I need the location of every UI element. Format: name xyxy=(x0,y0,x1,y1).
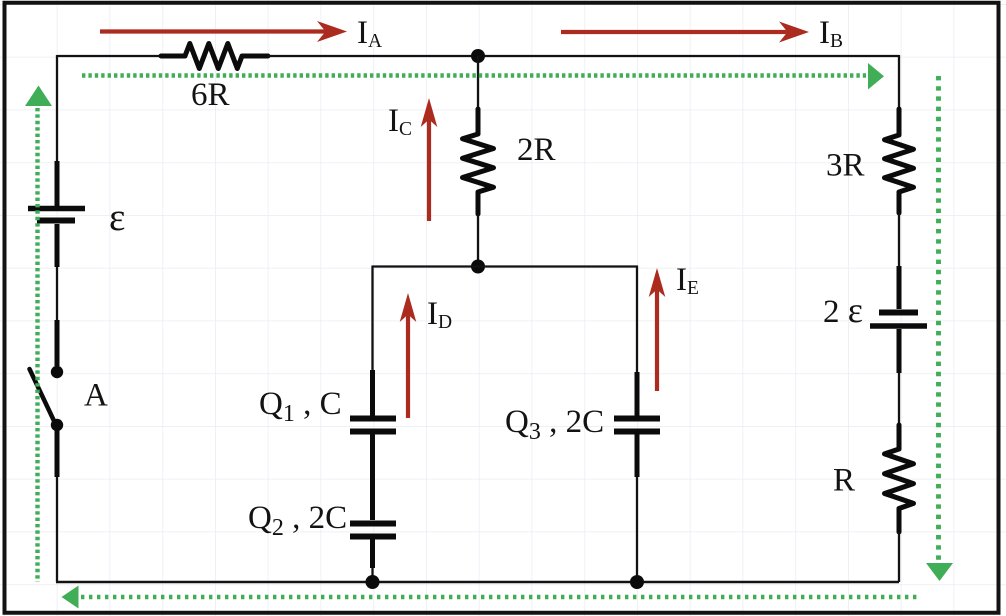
wire right capacitor branch lower xyxy=(636,477,638,582)
wire 2R stub bottom xyxy=(477,214,479,267)
wire left rail lower xyxy=(56,477,58,582)
capacitor Q2 2C xyxy=(350,524,396,569)
battery EMF (cell) xyxy=(28,161,85,267)
label 2R xyxy=(517,132,556,168)
wire right rail (2e to R) xyxy=(898,373,900,426)
label A xyxy=(84,378,108,414)
label IA xyxy=(357,15,382,52)
wire right rail top xyxy=(898,55,900,110)
label epsilon xyxy=(109,196,125,239)
label 2 epsilon xyxy=(823,290,863,330)
current arrow IA xyxy=(100,21,347,42)
node bottom-left junction xyxy=(366,575,380,589)
svg-text:2 ε: 2 ε xyxy=(823,290,863,330)
current arrow IC xyxy=(421,98,438,221)
svg-text:Q1 , C: Q1 , C xyxy=(259,386,342,427)
wire left rail upper xyxy=(56,55,58,161)
battery 2 EMF xyxy=(870,266,927,373)
loop arrow left (dotted, up) xyxy=(25,86,52,583)
svg-text:2R: 2R xyxy=(517,132,556,168)
label Q1 , C xyxy=(259,386,342,427)
current arrow IE xyxy=(649,268,666,391)
wire right rail bottom xyxy=(898,532,900,582)
label IB xyxy=(819,15,843,52)
label R xyxy=(833,463,855,499)
wire between Q1 and Q2 xyxy=(370,435,375,521)
node bottom-right junction xyxy=(630,575,644,589)
wire top (left corner to 6R) xyxy=(57,55,161,57)
resistor R xyxy=(885,425,914,532)
current arrow IB xyxy=(561,22,809,43)
label 6R xyxy=(191,77,230,113)
label IC xyxy=(388,103,412,140)
wire middle horizontal xyxy=(373,265,638,267)
node top junction xyxy=(471,49,485,63)
current arrow ID xyxy=(400,293,417,418)
wire left capacitor branch lower xyxy=(371,568,373,582)
label Q2 , 2C xyxy=(248,500,347,541)
svg-text:ε: ε xyxy=(109,196,125,239)
resistor 3R xyxy=(885,109,914,213)
resistor 6R xyxy=(161,44,268,69)
wire right rail (3R to 2e) xyxy=(898,213,900,267)
label 3R xyxy=(826,148,865,184)
label Q3 , 2C xyxy=(505,404,604,445)
svg-text:Q2 , 2C: Q2 , 2C xyxy=(248,500,347,541)
wire 2R stub top xyxy=(477,56,479,110)
loop arrow bottom (dotted, left) xyxy=(62,586,920,609)
svg-text:Q3 , 2C: Q3 , 2C xyxy=(505,404,604,445)
svg-text:A: A xyxy=(84,378,108,414)
resistor 2R xyxy=(463,109,494,214)
switch A xyxy=(30,320,64,477)
capacitor Q3 2C xyxy=(614,372,660,477)
wire right capacitor branch upper xyxy=(636,266,638,374)
wire top (6R to right corner) xyxy=(268,55,899,57)
label ID xyxy=(427,296,452,333)
label IE xyxy=(676,262,699,299)
wire left capacitor branch upper xyxy=(371,266,373,372)
node middle junction xyxy=(471,260,485,274)
capacitor Q1 C xyxy=(350,370,396,432)
wire bottom xyxy=(56,581,899,584)
svg-text:6R: 6R xyxy=(191,77,230,113)
svg-text:3R: 3R xyxy=(826,148,865,184)
svg-text:R: R xyxy=(833,463,855,499)
loop arrow top (dotted, right) xyxy=(82,63,884,90)
loop arrow right (dotted, down) xyxy=(926,76,953,581)
wire left rail middle xyxy=(56,267,58,322)
